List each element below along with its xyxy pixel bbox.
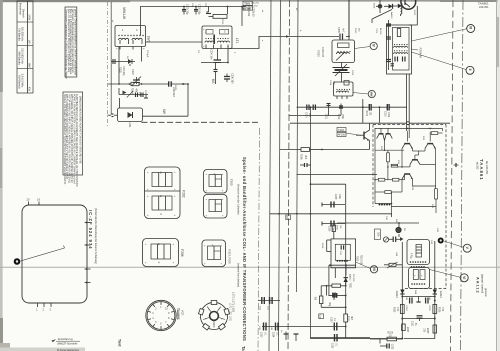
sundry value labels [111,3,438,334]
resistor RI1 [431,132,438,135]
svg-text:4n7: 4n7 [341,28,344,33]
filter F204 box [387,25,412,74]
TAA861 part label [476,159,489,181]
measuring point circle II [466,66,474,74]
wire pot feed [337,214,419,224]
svg-text:AA112: AA112 [349,274,352,281]
wire trunk line A [269,0,271,351]
capacitor C209 [300,163,311,167]
capacitor C205 coupling [337,27,345,40]
transistor Q4 [410,155,420,165]
svg-text:KW: KW [27,87,30,92]
svg-text:C216: C216 [384,111,386,117]
wire IF takeoff y107.2 [297,106,370,108]
diode note AA112 text [476,274,487,297]
wire bias row [402,296,435,298]
svg-text:C204 10n: C204 10n [209,49,212,60]
trimmer circle [383,237,388,242]
arrow on wire [286,35,290,37]
svg-text:F205: F205 [356,256,358,262]
transistor T201 mixer circle [401,0,417,25]
svg-text:180p: 180p [341,114,343,120]
svg-text:[MW] [LW] MEASURED AGAINST CHA: [MW] [LW] MEASURED AGAINST CHASSIS GROUN… [78,96,81,164]
capacitor pair upper trunk [258,297,280,311]
svg-text:Entstörung: Entstörung [58,337,73,341]
driver stage module box [321,239,356,268]
svg-text:R227: R227 [406,327,408,333]
svg-text:L173, L171, L181: L173, L171, L181 [232,292,236,313]
resistor RI2 [387,153,390,162]
scan right edge [497,0,500,351]
ground stub center [416,297,420,303]
diode D221 [344,274,355,286]
svg-text:C207: C207 [131,69,134,75]
svg-text:R210: R210 [354,28,356,34]
svg-text:R229: R229 [388,333,394,335]
resistor R222 vertical [314,286,347,319]
svg-text:C212: C212 [337,114,339,120]
leader lines bottom measuring points [430,241,464,277]
svg-text:AF106: AF106 [379,28,382,35]
svg-text:R218: R218 [321,243,323,249]
measuring point circle V [463,244,471,252]
svg-text:C211: C211 [324,114,326,120]
svg-text:ab 252: ab 252 [476,162,479,170]
wire link y214 [270,213,393,215]
svg-text:R226: R226 [437,307,439,313]
svg-text:FURTHER DETAILS OF ALIGNMENT S: FURTHER DETAILS OF ALIGNMENT SEE SERVICE… [75,94,78,187]
wire trunk dash-dot F [258,128,260,351]
svg-text:R216: R216 [365,111,367,117]
svg-text:F286: F286 [180,249,184,256]
resistor RI3 [391,164,397,167]
resistor R226 [433,305,443,314]
svg-text:C205: C205 [337,27,340,33]
capacitor C225 on lower wire [311,334,371,349]
resistor R228 [422,325,436,334]
wire LW1 right pin down [141,47,143,62]
svg-text:C219: C219 [405,305,407,311]
filter F202 box [332,37,355,63]
svg-text:ab 252: ab 252 [251,6,258,8]
oscillator coil box [334,81,354,100]
svg-text:T202: T202 [338,128,344,132]
measuring point circle left a [370,266,377,273]
wire feedback row [402,318,435,320]
dotted row bias [379,204,391,206]
wire top rail [141,6,247,26]
trimmer capacitor C207 [131,69,141,86]
svg-text:AA112: AA112 [395,291,398,299]
svg-text:C222: C222 [390,344,392,350]
twin IF wires into IC [406,74,409,131]
svg-text:C221: C221 [410,321,412,327]
transistor Q5 [402,174,413,179]
svg-text:Betriebsart: Betriebsart [18,3,21,15]
svg-text:C210: C210 [305,112,307,118]
boxed labels T202 AF106 [337,128,361,137]
transformer LW1 [115,26,146,50]
svg-text:100n: 100n [387,112,389,118]
resistor R217 [332,225,341,239]
svg-text:UKW: UKW [27,14,30,20]
coil SW box [108,98,143,128]
dotted row between boxes [411,266,425,268]
ground stub T1 [284,332,289,341]
diode D201 cluster [111,59,135,76]
svg-text:C206 180: C206 180 [230,73,233,84]
coil L203 squiggle [401,9,402,17]
svg-text:Tas: Tas [241,346,246,351]
svg-text:150-285 kHz: 150-285 kHz [20,27,23,42]
diode arrow [400,237,404,241]
svg-text:T201: T201 [375,28,377,34]
capacitor row on band bus [324,104,343,121]
capacitor C217 [328,293,335,307]
svg-text:F253: F253 [317,50,321,57]
svg-text:T201: T201 [244,2,251,6]
svg-text:R203: R203 [221,19,223,25]
wire right rail [404,241,435,339]
leader lines to measuring points [412,29,467,70]
resistor R206 [280,148,370,161]
svg-text:F202 M: F202 M [321,47,325,57]
svg-text:R225: R225 [392,307,394,313]
svg-text:C225: C225 [330,343,332,349]
driver stage output wire [329,264,356,296]
wire trunk line E [311,107,403,339]
trimmer arrow second [127,91,133,98]
wire band bus solid y115 right segment [289,115,342,117]
svg-text:LT1: LT1 [235,38,239,44]
IF filter footprint F282 [145,167,181,219]
capacitor C223 [259,323,266,339]
svg-text:C209 4n7: C209 4n7 [172,87,174,98]
resistor R229 [370,333,402,341]
wire osc collector vertical [362,99,364,123]
voltage table [17,1,33,93]
svg-text:240-251: 240-251 [251,3,260,5]
wire LT1 to mixer (step) [229,37,339,49]
svg-text:LW-Bandbr.: LW-Bandbr. [17,28,20,41]
pointer line in module [21,246,65,262]
bottom edge smear [0,348,85,351]
F204 label [412,48,423,59]
svg-text:LW1: LW1 [146,36,150,43]
IF filter footprint F286 [143,239,179,267]
boxed labels T201 BF167 [243,1,253,10]
svg-text:5,9-6,3 MHz: 5,9-6,3 MHz [20,74,23,88]
svg-text:(MW)ZF-Störstelle: (MW)ZF-Störstelle [57,343,78,346]
footprint box cap assembly [409,268,430,289]
capacitor C210 series pair [305,105,316,119]
wire mixer collector vertical [348,0,350,37]
svg-text:R217: R217 [336,225,338,231]
diode D224 [433,290,442,299]
diode AA112 blobs at T201 emitter [384,3,402,8]
svg-text:L201: L201 [128,122,131,128]
diode D223 [395,290,405,299]
capacitor C222 to ground [380,339,392,350]
resistor RI7 [435,189,438,199]
wire AF feed y184.2 [310,183,346,280]
transformer LT1 [202,26,232,49]
note block english [63,92,83,187]
svg-text:II: II [468,69,472,71]
paper crease [0,266,500,268]
capacitor C224 [271,323,278,339]
capacitor blob C230 [373,0,383,13]
svg-text:AF106: AF106 [338,134,346,137]
wire trunk line B [279,0,281,351]
resistor R201 and capacitor above LT1 [206,6,254,18]
svg-text:TAA861: TAA861 [176,308,180,320]
svg-text:C214: C214 [329,80,331,86]
black terminal dot right [438,238,444,244]
svg-text:IC-ZF 524 974: IC-ZF 524 974 [88,210,93,249]
svg-text:510-1620 kHz: 510-1620 kHz [20,48,23,64]
transistor T202 [356,123,370,149]
potentiometer volume [396,223,401,237]
tuning gang capacitor [333,63,350,83]
resistor R221 [321,283,351,296]
capacitor stubs on osc feed line [386,20,391,70]
IC TAA861 dashed boundary [373,125,446,289]
svg-text:bis 240-251: bis 240-251 [485,161,489,175]
svg-text:III: III [469,26,473,29]
svg-text:geltend. Gesamtstromaufnahme c: geltend. Gesamtstromaufnahme ca. 9mA im … [73,9,76,76]
boxed label on wire [286,215,291,220]
module IC-ZF label [88,208,97,264]
footprint box pot assembly [407,240,430,265]
IF filter footprint F203 F205 bottom [202,240,226,267]
svg-text:C202 30p: C202 30p [197,4,200,15]
svg-text:AA112: AA112 [390,12,393,19]
resistor R204 on bus [131,82,140,94]
svg-text:470µ: 470µ [409,253,412,259]
capacitor row to ground [119,88,148,98]
coil footprint circle [198,301,230,331]
svg-text:R223: R223 [346,316,348,322]
svg-text:C201 10p: C201 10p [185,4,188,15]
ground stub T2 [294,334,299,341]
capacitor C219 [405,298,412,312]
svg-text:C224: C224 [271,332,273,338]
resistor RI6 [385,191,391,194]
svg-text:Tast: Tast [118,339,122,347]
svg-text:Spulen- und Bandfilter-Anschlü: Spulen- und Bandfilter-Anschlüsse COIL- … [242,157,247,341]
boxed label 10k [375,229,381,240]
svg-text:C203 50: C203 50 [251,7,254,17]
svg-text:Bereich: Bereich [21,9,24,18]
svg-text:MW-LW: MW-LW [122,7,126,20]
svg-text:VII: VII [372,267,376,271]
wire AGC bus y123 [290,122,450,124]
IF filter footprint F203 upper [204,170,228,194]
IF filter footprint F203 lower [204,195,228,219]
svg-text:240-251: 240-251 [479,5,489,9]
resistor RI4 [378,178,384,181]
driver labels F205 R219 [356,255,362,266]
wire LW1 left pin down [118,47,120,85]
svg-text:40µ: 40µ [328,302,330,307]
trimmer resistor arrow [384,262,402,268]
svg-text:C2 6p8: C2 6p8 [146,50,148,58]
svg-text:2k2: 2k2 [304,155,307,160]
svg-text:F282: F282 [182,190,186,197]
TAA861 pinout label [176,308,185,320]
wire LW1 secondary to LT1 [146,41,203,43]
black terminal dot [14,258,21,265]
svg-text:R202: R202 [118,67,121,73]
transistor pair input [377,134,393,141]
scan left edge [0,0,10,351]
wire antenna bus x111 [110,2,112,115]
svg-text:F203, F205: F203, F205 [228,249,232,264]
svg-text:C208: C208 [334,194,336,200]
capacitor C204 cluster below LT1 [201,49,233,85]
measuring point circle osc [353,90,375,97]
svg-text:F205: F205 [229,179,233,186]
tick on fold line [454,163,459,167]
wire left rail [401,242,403,339]
svg-text:R212: R212 [413,10,415,16]
svg-text:MW: MW [27,63,30,68]
bottom middle wires [259,278,370,349]
transistor Q2 [402,144,413,149]
transistor Q3 [425,144,436,149]
IC internal wires [374,128,442,214]
svg-text:SW: SW [162,109,166,114]
note Entstoerung [52,337,81,351]
svg-text:10k: 10k [377,232,381,237]
wire AM bus y84 [108,81,189,116]
svg-text:F204 M: F204 M [418,48,422,59]
wire trunk line C dashed [288,0,290,351]
resistor R223 [344,278,352,338]
svg-text:KW-Bereich: KW-Bereich [17,75,20,89]
wire T201 base diagonal [372,10,392,24]
svg-text:R228: R228 [426,328,428,334]
svg-text:MS: MS [211,79,215,84]
note block german [65,7,77,79]
capacitor C208 pair upper [322,194,345,208]
IC pinout circle TAA861 [146,300,176,330]
svg-text:R206: R206 [299,154,302,160]
wire band bus dashed y122 [142,121,260,123]
capacitor C201 [182,4,188,15]
fold line dashed right [451,0,454,351]
svg-text:(Schematische Darstellung der: (Schematische Darstellung der inneren Sc… [94,208,97,264]
svg-text:VCR: VCR [181,310,185,316]
svg-text:C220: C220 [428,305,430,311]
capacitor C213 series [365,104,380,123]
svg-text:(gepaart / paired): (gepaart / paired) [480,274,483,293]
measuring point circle M1 [355,42,378,49]
capacitor C209 pair lower [322,221,345,233]
fold line dash-dot right [461,0,464,351]
capacitor C221 [410,316,422,327]
resistor R225 [392,305,404,314]
svg-text:R205: R205 [174,85,176,91]
capacitor C226 [329,293,347,298]
svg-text:AA112: AA112 [439,291,442,299]
capacitor C202 [194,4,200,15]
leader to circle VII [356,262,371,269]
wire driver to R221 [334,268,336,278]
scan top edge [0,0,500,2]
svg-text:C209: C209 [327,226,329,232]
svg-text:100n: 100n [338,194,340,200]
part number top right [478,2,489,10]
module IC-ZF box [22,198,91,312]
svg-text:R208: R208 [373,3,375,9]
svg-text:L204: L204 [351,70,353,76]
svg-text:TAA861: TAA861 [478,2,489,6]
junction dots [401,296,436,340]
measuring point circle VI [460,274,468,282]
wire audio y326.5 [262,326,346,328]
capacitor C220 [426,298,430,312]
svg-text:MW: MW [370,92,374,97]
F202 label [317,47,326,57]
capacitor C218 [389,237,400,243]
svg-text:(Ansicht von der Lötseite): (Ansicht von der Lötseite) [237,184,241,215]
svg-text:R221: R221 [349,283,351,289]
measuring point circle III [467,25,475,33]
resistor R227 [402,324,408,333]
capacitor C216 series [379,104,406,118]
capacitor C227 on audio wire [330,317,337,331]
svg-text:C223: C223 [259,332,261,338]
svg-text:VI: VI [462,276,466,279]
svg-text:C227: C227 [330,317,332,323]
wire IF out y174.5 [297,174,378,176]
chassis frame dash line left [107,2,109,128]
svg-text:DZ 6F8: DZ 6F8 [352,274,354,282]
wire trunk line D [297,0,299,292]
svg-text:LW: LW [27,40,30,44]
svg-text:L171, L173, L181: L171, L173, L181 [229,303,231,322]
resistor RI5 [393,178,399,181]
svg-text:getestet: getestet [484,288,487,297]
svg-text:AA112: AA112 [476,277,480,294]
AF output stage [370,241,443,350]
svg-text:MW-Bandbr.: MW-Bandbr. [17,51,20,65]
svg-text:(viewed from below): (viewed from below) [237,263,241,287]
